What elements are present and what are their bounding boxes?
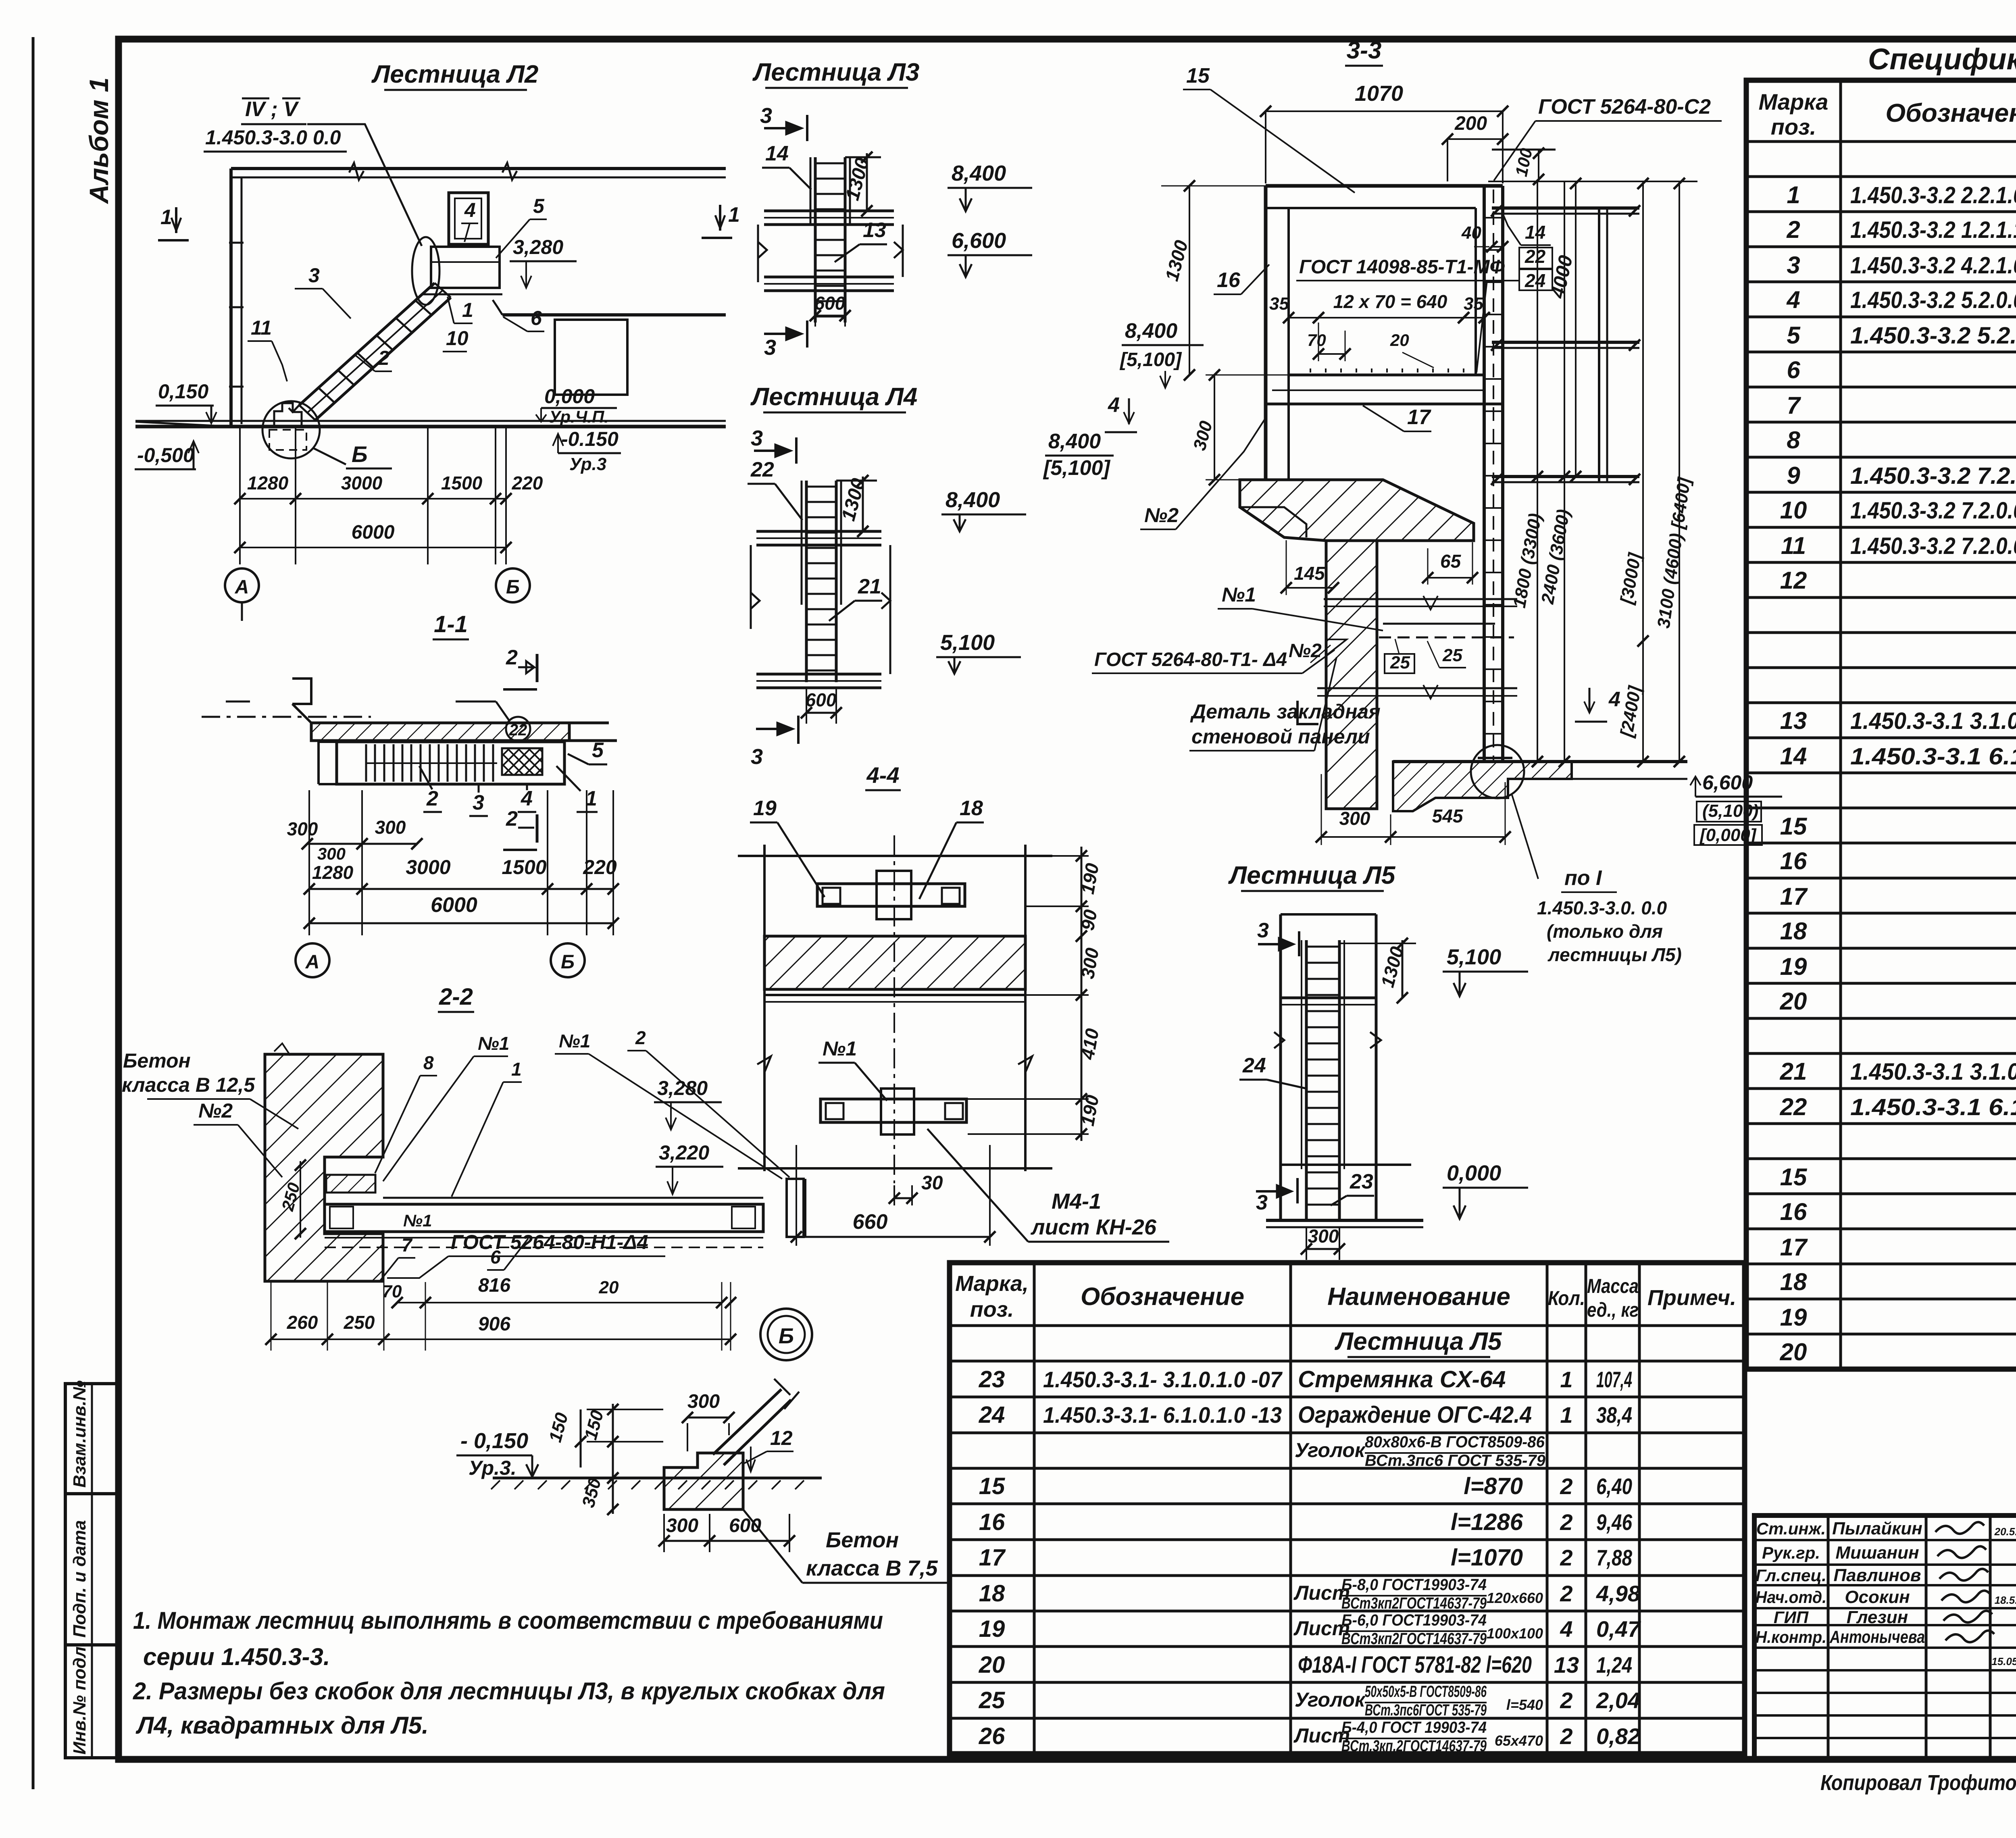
ladder L2 dimension chain <box>239 427 241 564</box>
ladder L4 ladder <box>805 481 808 682</box>
section 1-1 axis circles bottom <box>296 943 329 977</box>
section 4-4 upper plate <box>817 884 965 906</box>
svg-text:22: 22 <box>1524 246 1546 267</box>
sheet outer trim line left <box>32 37 35 1789</box>
svg-text:38,4: 38,4 <box>1596 1402 1632 1428</box>
ladder L2 ref leader <box>307 124 422 246</box>
svg-text:ГОСТ 5264-80-С2: ГОСТ 5264-80-С2 <box>1538 95 1711 119</box>
svg-text:Лестница Л5: Лестница Л5 <box>1335 1328 1502 1355</box>
svg-text:лист КН-26: лист КН-26 <box>1030 1215 1157 1239</box>
section 3-3 corner mark <box>1297 701 1318 724</box>
svg-text:22: 22 <box>750 458 774 481</box>
section 3-3 top extension line <box>1488 181 1697 182</box>
svg-text:Б-6,0 ГОСТ19903-74: Б-6,0 ГОСТ19903-74 <box>1341 1611 1487 1629</box>
svg-text:Обозначение: Обозначение <box>1081 1283 1244 1311</box>
svg-text:10: 10 <box>1780 497 1807 524</box>
svg-text:Л4, квадратных для Л5.: Л4, квадратных для Л5. <box>135 1712 429 1739</box>
svg-text:серии 1.450.3-3.: серии 1.450.3-3. <box>143 1643 330 1670</box>
svg-text:2: 2 <box>506 807 518 831</box>
ladder L4 upper floor <box>756 530 881 533</box>
specification table grid <box>1746 80 2016 1369</box>
svg-text:ВСт.3пс6ГОСТ 535-79: ВСт.3пс6ГОСТ 535-79 <box>1365 1701 1487 1719</box>
svg-text:260: 260 <box>287 1312 318 1333</box>
svg-text:1500: 1500 <box>441 473 483 493</box>
ladder L2 right beam <box>502 313 726 316</box>
section 3-3 top rail anchor <box>1492 149 1556 151</box>
svg-text:ВСт.3кп.2ГОСТ14637-79: ВСт.3кп.2ГОСТ14637-79 <box>1341 1737 1487 1755</box>
svg-text:13: 13 <box>1780 707 1807 734</box>
svg-text:ГОСТ 5264-80-Н1-Δ4: ГОСТ 5264-80-Н1-Δ4 <box>451 1231 648 1253</box>
svg-text:1. Монтаж лестниц выполнять в: 1. Монтаж лестниц выполнять в соответств… <box>133 1607 883 1634</box>
svg-text:300: 300 <box>1339 808 1370 829</box>
svg-text:1500: 1500 <box>502 856 546 878</box>
svg-text:Б-8,0 ГОСТ19903-74: Б-8,0 ГОСТ19903-74 <box>1341 1576 1487 1594</box>
svg-text:20: 20 <box>979 1652 1005 1678</box>
svg-text:11: 11 <box>1781 532 1806 559</box>
ladder L2 left wall <box>229 169 233 427</box>
svg-text:Б: Б <box>561 951 575 973</box>
svg-text:9: 9 <box>1787 462 1800 489</box>
svg-text:660: 660 <box>853 1210 888 1234</box>
svg-text:Масса: Масса <box>1587 1275 1639 1297</box>
svg-text:3,220: 3,220 <box>659 1141 709 1164</box>
svg-text:поз.: поз. <box>1771 114 1816 139</box>
svg-text:6000: 6000 <box>352 522 395 543</box>
svg-text:18: 18 <box>1780 1268 1807 1295</box>
ladder L2 floor line <box>135 420 726 422</box>
svg-text:6,600: 6,600 <box>1702 771 1753 794</box>
svg-text:5: 5 <box>533 195 545 217</box>
svg-text:8: 8 <box>1787 427 1800 454</box>
svg-text:лестницы Л5): лестницы Л5) <box>1547 944 1682 965</box>
svg-text:24: 24 <box>979 1402 1005 1428</box>
svg-text:200: 200 <box>1454 113 1487 134</box>
svg-text:600: 600 <box>806 689 837 710</box>
svg-text:(5,100): (5,100) <box>1702 801 1758 821</box>
section 1-1 stair plan <box>337 742 564 784</box>
svg-text:3: 3 <box>764 335 776 360</box>
svg-text:№1: №1 <box>823 1037 857 1060</box>
svg-text:1.450.3-3.1 3.1.0.1.0-01: 1.450.3-3.1 3.1.0.1.0-01 <box>1850 708 2016 734</box>
svg-text:300: 300 <box>287 818 318 839</box>
svg-text:1: 1 <box>462 299 473 321</box>
section 3-3 wall cap <box>1240 480 1474 541</box>
ladder L5 cut 3 bottom <box>1296 1178 1299 1203</box>
svg-text:класса В 12,5: класса В 12,5 <box>122 1074 255 1096</box>
ladder L5 cut 3 top <box>1298 931 1300 956</box>
svg-text:250: 250 <box>344 1312 375 1333</box>
svg-text:-0,500: -0,500 <box>137 444 194 466</box>
svg-text:14: 14 <box>1780 743 1807 770</box>
svg-text:6: 6 <box>1787 356 1800 383</box>
footing ground line <box>493 1477 822 1480</box>
section 2-2 wall hatch <box>265 1054 383 1281</box>
svg-text:№2: №2 <box>198 1099 233 1122</box>
svg-text:М4-1: М4-1 <box>1052 1189 1101 1214</box>
svg-text:70: 70 <box>382 1282 402 1301</box>
svg-text:35: 35 <box>1464 294 1483 314</box>
ladder L4 cut 3 bottom <box>797 716 800 744</box>
svg-text:№1: №1 <box>478 1033 509 1054</box>
svg-text:Лестница Л5: Лестница Л5 <box>1228 862 1396 889</box>
signatures <box>1935 1522 1984 1534</box>
svg-text:300: 300 <box>1308 1226 1339 1247</box>
svg-text:Марка: Марка <box>1759 89 1829 114</box>
svg-text:90: 90 <box>1077 908 1101 932</box>
svg-text:№1: №1 <box>1222 583 1256 606</box>
svg-text:3: 3 <box>473 791 484 814</box>
svg-text:Б-4,0 ГОСТ 19903-74: Б-4,0 ГОСТ 19903-74 <box>1341 1719 1487 1736</box>
svg-text:Обозначение: Обозначение <box>1885 98 2016 127</box>
svg-text:65х470: 65х470 <box>1495 1732 1543 1749</box>
svg-text:14: 14 <box>1525 222 1545 243</box>
ladder L3 upper floor <box>764 210 894 212</box>
svg-text:300: 300 <box>687 1391 720 1412</box>
ladder L2 pit detail <box>274 403 302 427</box>
ladder L4 lower floor <box>756 673 881 676</box>
svg-text:2: 2 <box>506 646 518 669</box>
svg-text:70: 70 <box>1307 331 1326 350</box>
svg-text:Антонычева: Антонычева <box>1829 1627 1925 1647</box>
svg-text:906: 906 <box>478 1313 510 1335</box>
svg-text:12: 12 <box>1780 567 1807 594</box>
svg-text:1-1: 1-1 <box>434 611 468 637</box>
svg-text:220: 220 <box>512 473 543 493</box>
svg-text:Инв.№ подл.: Инв.№ подл. <box>70 1642 90 1755</box>
svg-text:Примеч.: Примеч. <box>1647 1286 1736 1310</box>
svg-text:4: 4 <box>521 787 533 810</box>
svg-text:9,46: 9,46 <box>1596 1509 1633 1535</box>
svg-text:Бетон: Бетон <box>123 1049 191 1072</box>
section 4-4 center line <box>893 835 895 1183</box>
svg-text:17: 17 <box>1780 1234 1808 1261</box>
svg-text:Ограждение ОГС-42.4: Ограждение ОГС-42.4 <box>1298 1402 1532 1428</box>
svg-text:[0,000]: [0,000] <box>1699 825 1757 845</box>
svg-text:300: 300 <box>317 844 346 863</box>
svg-text:2: 2 <box>1560 1474 1572 1499</box>
svg-text:№1: №1 <box>559 1030 590 1051</box>
section 3-3 platform floor <box>1289 374 1484 377</box>
footing concrete block <box>664 1453 743 1509</box>
svg-text:2: 2 <box>635 1027 646 1048</box>
svg-text:4: 4 <box>1786 286 1800 313</box>
svg-text:4-4: 4-4 <box>866 762 900 788</box>
section 1-1 pos 22 marker <box>506 717 530 741</box>
svg-text:2: 2 <box>426 787 438 810</box>
svg-text:8,400: 8,400 <box>1125 319 1177 343</box>
svg-text:4: 4 <box>1608 688 1620 711</box>
ladder L2 section cut 1 left <box>175 207 177 233</box>
svg-text:5,100: 5,100 <box>1447 945 1501 969</box>
svg-text:1.450.3-3.2 2.2.1.0.0.0-07: 1.450.3-3.2 2.2.1.0.0.0-07 <box>1850 182 2016 208</box>
svg-text:1.450.3-3.2 7.2.0.0.0.3-01: 1.450.3-3.2 7.2.0.0.0.3-01 <box>1850 533 2016 559</box>
svg-text:3: 3 <box>1256 1191 1268 1214</box>
section 2-2 embed plate <box>326 1175 375 1193</box>
svg-text:2: 2 <box>1560 1509 1572 1535</box>
svg-text:4: 4 <box>1108 393 1120 417</box>
svg-text:25: 25 <box>979 1687 1005 1713</box>
svg-text:17: 17 <box>1407 406 1431 429</box>
section 3-3 right dim lines <box>1537 181 1538 762</box>
svg-text:1: 1 <box>1787 181 1800 208</box>
svg-text:А: А <box>305 951 320 973</box>
ladder L2 railing <box>449 193 488 244</box>
svg-text:3: 3 <box>751 745 763 769</box>
svg-text:24: 24 <box>1524 270 1545 291</box>
svg-text:1: 1 <box>511 1059 522 1080</box>
svg-text:80х80х6-В ГОСТ8509-86: 80х80х6-В ГОСТ8509-86 <box>1365 1433 1545 1451</box>
section 4-4 lower plate <box>821 1099 966 1122</box>
svg-text:Кол.: Кол. <box>1548 1287 1585 1309</box>
svg-text:Нач.отд.: Нач.отд. <box>1756 1588 1826 1607</box>
ladder L5 lower lines <box>1281 1164 1411 1166</box>
svg-text:18.5.84: 18.5.84 <box>1995 1594 2016 1606</box>
svg-text:1280: 1280 <box>312 862 354 883</box>
svg-text:ВСт.3пс6 ГОСТ 535-79: ВСт.3пс6 ГОСТ 535-79 <box>1365 1452 1546 1470</box>
svg-text:1.450.3-3.1- 6.1.0.1.0 -13: 1.450.3-3.1- 6.1.0.1.0 -13 <box>1043 1402 1282 1428</box>
svg-text:16: 16 <box>1780 1198 1807 1225</box>
svg-text:ед., кг: ед., кг <box>1587 1299 1639 1321</box>
ladder L2 top wall <box>231 167 726 170</box>
svg-text:545: 545 <box>1432 806 1464 826</box>
svg-text:ГОСТ 14098-85-Т1-МФ: ГОСТ 14098-85-Т1-МФ <box>1299 256 1505 278</box>
svg-text:1: 1 <box>160 206 172 229</box>
svg-text:ВСт3кп2ГОСТ14637-79: ВСт3кп2ГОСТ14637-79 <box>1341 1630 1487 1648</box>
svg-text:1: 1 <box>1560 1367 1572 1392</box>
ladder L5 walls <box>1279 914 1282 1220</box>
svg-text:23: 23 <box>1350 1170 1373 1193</box>
svg-text:1.450.3-3.1 3.1.0.1.0-04: 1.450.3-3.1 3.1.0.1.0-04 <box>1850 1059 2016 1085</box>
svg-text:18: 18 <box>1780 918 1807 945</box>
ladder L2 node B leader <box>314 448 346 464</box>
left strip boxes <box>65 1384 118 1758</box>
svg-text:2: 2 <box>1786 216 1800 243</box>
svg-text:Взам.инв.№: Взам.инв.№ <box>70 1380 90 1488</box>
svg-text:Глезин: Глезин <box>1847 1607 1908 1627</box>
svg-text:8,400: 8,400 <box>952 161 1006 185</box>
ladder L5 ladder <box>1305 940 1308 1220</box>
svg-text:11: 11 <box>251 316 272 339</box>
svg-text:22: 22 <box>1780 1093 1807 1120</box>
svg-text:220: 220 <box>583 856 617 878</box>
svg-text:[5,100]: [5,100] <box>1119 349 1182 371</box>
svg-text:24: 24 <box>1242 1054 1266 1077</box>
svg-text:1.450.3-3.0. 0.0: 1.450.3-3.0. 0.0 <box>1537 897 1667 918</box>
svg-text:17: 17 <box>1780 883 1808 910</box>
svg-text:816: 816 <box>478 1275 510 1296</box>
svg-text:21: 21 <box>1780 1058 1807 1085</box>
svg-text:Подп. и дата: Подп. и дата <box>70 1520 90 1638</box>
ladder L4 cut 3 top <box>795 437 798 464</box>
svg-text:2. Размеры без скобок для лес: 2. Размеры без скобок для лестницы Л3, в… <box>133 1678 885 1705</box>
svg-text:Мишанин: Мишанин <box>1835 1543 1919 1563</box>
ladder L3 lower floor <box>764 276 894 279</box>
svg-text:l=870: l=870 <box>1464 1473 1523 1499</box>
ladder L3 dim 1300 <box>866 153 868 211</box>
svg-text:1.450.3-3.2 5.2.0.0.1.0-03: 1.450.3-3.2 5.2.0.0.1.0-03 <box>1850 287 2016 313</box>
svg-text:1.450.3-3.0 0.0: 1.450.3-3.0 0.0 <box>205 126 341 149</box>
section 2-2 floor beam <box>383 1197 763 1199</box>
svg-text:1.450.3-3.2 1.2.1.1.0.0-13: 1.450.3-3.2 1.2.1.1.0.0-13 <box>1850 217 2016 243</box>
svg-text:3: 3 <box>1257 919 1269 942</box>
svg-text:4: 4 <box>464 199 476 221</box>
svg-text:Б: Б <box>506 577 520 598</box>
svg-text:16: 16 <box>1217 269 1241 292</box>
svg-text:19: 19 <box>1780 953 1807 980</box>
svg-text:8: 8 <box>423 1052 434 1073</box>
svg-text:120х660: 120х660 <box>1487 1590 1543 1606</box>
section 1-1 dims <box>307 843 417 845</box>
svg-text:Стремянка СХ-64: Стремянка СХ-64 <box>1298 1366 1506 1393</box>
svg-text:1,24: 1,24 <box>1596 1652 1632 1678</box>
svg-text:Осокин: Осокин <box>1845 1587 1910 1607</box>
svg-text:Б: Б <box>352 441 368 467</box>
svg-text:(только для: (только для <box>1547 921 1663 942</box>
svg-text:12 х 70 = 640: 12 х 70 = 640 <box>1333 291 1447 312</box>
svg-text:20: 20 <box>599 1278 619 1297</box>
section 3-3 detail circle <box>1471 745 1524 798</box>
section 3-3 bottom slab <box>1393 762 1572 811</box>
title block stamp <box>1754 1515 2016 1759</box>
svg-text:1.450.3-3.2 7.2.0.0.0.2-01: 1.450.3-3.2 7.2.0.0.0.2-01 <box>1850 497 2016 524</box>
ladder L3 ladder <box>814 157 817 323</box>
svg-text:Копировал Трофитова: Копировал Трофитова <box>1820 1771 2016 1795</box>
svg-text:- 0,150: - 0,150 <box>460 1429 528 1453</box>
svg-text:3: 3 <box>308 264 320 287</box>
section 3-3 ladder rungs <box>1485 217 1502 219</box>
ladder L4 dim 1300 <box>862 477 864 531</box>
svg-text:поз.: поз. <box>970 1297 1014 1322</box>
svg-text:IV ; V: IV ; V <box>245 98 299 121</box>
svg-text:2,04: 2,04 <box>1596 1688 1640 1713</box>
svg-text:ГОСТ 5264-80-Т1- Δ4: ГОСТ 5264-80-Т1- Δ4 <box>1094 649 1287 670</box>
ladder L2 stair flight <box>299 283 435 405</box>
svg-text:35: 35 <box>1269 294 1289 314</box>
section 4-4 hatched band <box>764 936 1025 989</box>
section 3-3 platform walls <box>1266 184 1503 188</box>
svg-text:Ур.3: Ур.3 <box>569 454 606 474</box>
section 3-3 tie rod lower <box>1317 687 1517 689</box>
svg-text:13: 13 <box>863 219 886 242</box>
svg-text:l=540: l=540 <box>1506 1696 1543 1713</box>
svg-text:22: 22 <box>509 721 527 739</box>
svg-text:1.450.3-3.2 5.2.0.0.1.0: 1.450.3-3.2 5.2.0.0.1.0 <box>1850 323 2016 349</box>
svg-text:№2: №2 <box>1144 504 1179 527</box>
svg-text:25: 25 <box>1390 653 1410 672</box>
svg-text:7: 7 <box>402 1234 413 1255</box>
svg-text:4: 4 <box>1560 1616 1572 1642</box>
svg-text:5,100: 5,100 <box>940 631 995 655</box>
svg-text:Ур.3.: Ур.3. <box>469 1457 516 1479</box>
svg-text:18: 18 <box>960 797 983 820</box>
section 1-1 axis circles top <box>225 568 259 602</box>
svg-text:Марка,: Марка, <box>955 1272 1029 1296</box>
section 3-3 ladder feet <box>1478 757 1512 759</box>
svg-text:1280: 1280 <box>247 473 289 493</box>
svg-text:Уголок: Уголок <box>1295 1688 1366 1711</box>
svg-text:3,280: 3,280 <box>657 1077 708 1099</box>
svg-text:25: 25 <box>1442 645 1462 665</box>
svg-text:6000: 6000 <box>431 893 477 917</box>
svg-text:15.05.89: 15.05.89 <box>1991 1655 2016 1667</box>
svg-text:по I: по I <box>1564 866 1602 890</box>
svg-text:ГИП: ГИП <box>1774 1608 1809 1627</box>
svg-text:Наименование: Наименование <box>1327 1283 1510 1311</box>
ladder L5 floor band <box>1281 997 1376 999</box>
svg-text:2: 2 <box>1560 1581 1572 1606</box>
svg-text:100х100: 100х100 <box>1487 1625 1543 1642</box>
svg-text:18: 18 <box>979 1580 1005 1607</box>
svg-text:Ф18А-I ГОСТ 5781-82 l=620: Ф18А-I ГОСТ 5781-82 l=620 <box>1298 1652 1532 1678</box>
svg-text:13: 13 <box>1554 1652 1579 1678</box>
footing node B marker <box>760 1309 812 1360</box>
svg-text:l=1286: l=1286 <box>1451 1509 1523 1535</box>
svg-text:[5,100]: [5,100] <box>1043 456 1110 480</box>
svg-text:20: 20 <box>1780 988 1807 1015</box>
svg-text:Бетон: Бетон <box>826 1528 899 1552</box>
section 3-3 wall column <box>1326 541 1377 809</box>
svg-text:1070: 1070 <box>1355 81 1403 106</box>
section 4-4 outline <box>738 855 1052 857</box>
svg-text:16: 16 <box>979 1509 1005 1535</box>
svg-text:1.450.3-3.1 6.1.0.1.0: 1.450.3-3.1 6.1.0.1.0 <box>1850 1094 2016 1120</box>
svg-text:65: 65 <box>1440 551 1462 572</box>
svg-text:10: 10 <box>446 327 469 350</box>
ladder L2 section cut 1 right <box>719 205 721 231</box>
ladder L2 right opening <box>555 320 627 395</box>
svg-text:2: 2 <box>1560 1545 1572 1570</box>
svg-text:-0.150: -0.150 <box>561 428 619 450</box>
section 1-1 cut 2 bottom <box>536 814 539 843</box>
svg-text:12: 12 <box>770 1427 793 1449</box>
svg-text:20: 20 <box>1390 331 1409 350</box>
section 3-3 weld wedge <box>1326 639 1347 656</box>
svg-text:№1: №1 <box>403 1211 432 1230</box>
footing channel <box>713 1389 781 1455</box>
svg-text:№2: №2 <box>1289 640 1322 662</box>
svg-text:Б: Б <box>779 1324 794 1348</box>
svg-text:8,400: 8,400 <box>946 488 1000 512</box>
svg-text:0,000: 0,000 <box>1447 1161 1501 1185</box>
svg-text:Деталь закладная: Деталь закладная <box>1190 700 1381 723</box>
svg-text:145: 145 <box>1294 563 1325 584</box>
section 3-3 rails <box>1492 206 1639 210</box>
svg-text:1.450.3-3.2 4.2.1.0.1.0-04: 1.450.3-3.2 4.2.1.0.1.0-04 <box>1850 252 2016 279</box>
svg-text:1: 1 <box>1560 1402 1572 1428</box>
svg-text:19: 19 <box>1780 1304 1807 1331</box>
svg-text:класса В 7,5: класса В 7,5 <box>806 1556 938 1580</box>
svg-text:0,82: 0,82 <box>1596 1724 1640 1749</box>
svg-text:3: 3 <box>751 426 763 450</box>
svg-text:Лестница Л4: Лестница Л4 <box>750 383 918 411</box>
svg-text:20: 20 <box>1780 1338 1807 1365</box>
svg-text:1: 1 <box>728 203 740 227</box>
svg-text:4,98: 4,98 <box>1596 1581 1641 1606</box>
svg-text:6: 6 <box>531 307 542 329</box>
svg-text:3: 3 <box>760 104 772 128</box>
svg-text:А: А <box>235 577 249 598</box>
section 3-3 rail post <box>1598 208 1600 482</box>
svg-text:7: 7 <box>1787 392 1801 419</box>
svg-text:0,150: 0,150 <box>158 380 208 403</box>
svg-text:3: 3 <box>1787 252 1800 279</box>
svg-text:2: 2 <box>1560 1688 1572 1713</box>
svg-text:107,4: 107,4 <box>1596 1367 1632 1392</box>
svg-text:6,40: 6,40 <box>1596 1474 1632 1499</box>
svg-text:1.450.3-3.1- 3.1.0.1.0 -07: 1.450.3-3.1- 3.1.0.1.0 -07 <box>1043 1367 1283 1392</box>
svg-text:3000: 3000 <box>406 856 450 878</box>
svg-text:15: 15 <box>1186 64 1210 87</box>
